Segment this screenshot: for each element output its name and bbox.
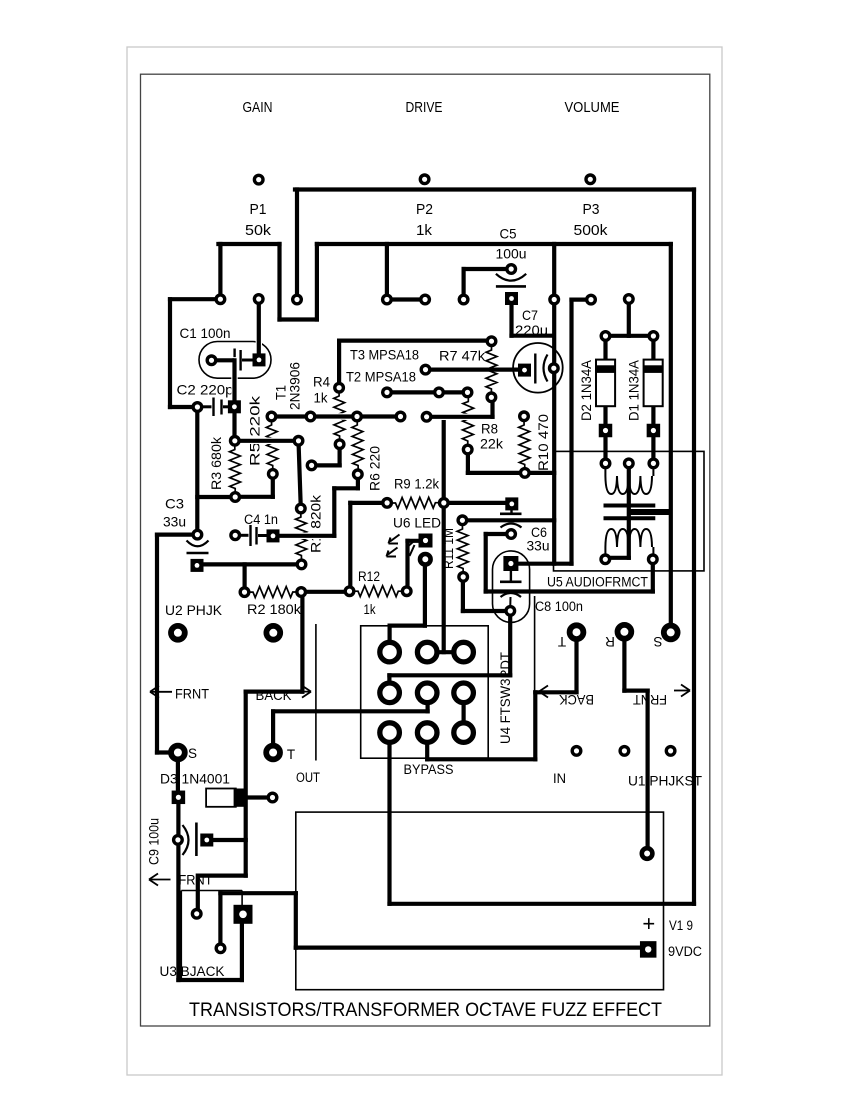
wire U3 tip to battery minus bus — [220, 893, 641, 948]
pad D3 cathode — [268, 793, 277, 802]
capacitor C6 straight plate — [500, 512, 522, 515]
pad footswitch 3-2 — [417, 723, 437, 743]
pad footswitch 1-1 — [380, 642, 400, 662]
svg-text:S: S — [653, 634, 662, 649]
wire D3 cathode lead — [244, 795, 273, 799]
pad C8 positive square — [503, 556, 518, 571]
svg-text:R10 470: R10 470 — [536, 414, 551, 471]
pad transformer feed left — [601, 332, 610, 341]
wire D3 to U3 sleeve — [178, 804, 242, 980]
wire LED cathode pad to footswitch — [390, 559, 425, 652]
pad U3 tip — [216, 944, 225, 953]
svg-text:TRANSISTORS/TRANSFORMER OCTAVE: TRANSISTORS/TRANSFORMER OCTAVE FUZZ EFFE… — [189, 1000, 662, 1021]
resistor R1 zigzag — [296, 513, 307, 560]
pad U1 pin 3 — [666, 747, 675, 756]
svg-text:R1 820k: R1 820k — [309, 495, 324, 553]
pad C2 square — [228, 400, 241, 413]
wire net P2 wiper loop (pads P2, FS3) — [295, 190, 694, 904]
capacitor C8 curved plate — [501, 593, 522, 597]
svg-text:R6 220: R6 220 — [368, 446, 383, 491]
svg-text:R8: R8 — [481, 422, 498, 437]
pad footswitch 2-3 — [454, 683, 474, 703]
svg-text:C2 220p: C2 220p — [177, 382, 234, 398]
pad C9 negative — [174, 836, 183, 845]
pad C1 positive square — [253, 353, 266, 366]
svg-text:T1: T1 — [274, 385, 289, 400]
pad U5 secondary right — [649, 555, 658, 564]
pad C3 negative square — [191, 559, 204, 572]
U1 jack outline line — [534, 596, 536, 692]
pad P3 pin — [586, 175, 595, 184]
svg-text:V1 9: V1 9 — [669, 918, 693, 933]
svg-text:IN: IN — [553, 771, 566, 786]
svg-text:C1 100n: C1 100n — [180, 325, 231, 341]
pad R1 bottom — [297, 560, 306, 569]
svg-text:U6 LED: U6 LED — [393, 516, 441, 531]
pad emitter row 1 — [267, 412, 276, 421]
wire T jack U1 to footswitch row3 — [427, 632, 576, 759]
wire footswitch row2-3 col3 link — [462, 693, 466, 733]
capacitor C6 lead — [510, 509, 512, 513]
pad R7 bottom — [487, 393, 496, 402]
pad D1 cathode square — [647, 424, 661, 438]
pad U2 jack sleeve S — [171, 746, 185, 760]
capacitor C3 straight plate — [187, 552, 209, 555]
pad R3 bottom — [231, 493, 240, 502]
pad P3 right — [625, 295, 634, 304]
pad C7 positive square — [518, 364, 531, 377]
capacitor C7 straight plate — [534, 354, 536, 384]
pad C6 positive square — [505, 497, 518, 510]
resistor R9 zigzag — [392, 497, 440, 508]
pad emitter row 2 — [306, 412, 315, 421]
svg-text:100u: 100u — [496, 246, 527, 262]
pad R10 top — [520, 412, 529, 421]
svg-text:C8 100n: C8 100n — [535, 599, 583, 614]
capacitor C7 curved plate — [544, 355, 548, 382]
wire R11 to C8 bottom — [463, 577, 510, 611]
pad R10 bottom — [521, 469, 530, 478]
LED U6 arrows — [387, 535, 416, 557]
transformer U5 core bars — [604, 506, 656, 519]
svg-text:2N3906: 2N3906 — [288, 362, 303, 410]
wire C5 negative stem to common — [512, 303, 553, 336]
pad C5 positive lead — [459, 295, 468, 304]
svg-text:R12: R12 — [358, 569, 380, 584]
pad footswitch 1-2 — [417, 642, 437, 662]
pad LED U6 anode square — [419, 534, 433, 548]
pad battery positive square — [640, 941, 657, 958]
pad R7 top — [487, 337, 496, 346]
arrow BACK left (rotated, right side) — [539, 686, 556, 698]
pad node 311 — [307, 461, 316, 470]
pad R11 bottom — [459, 573, 468, 582]
U3 jack outline lines — [181, 891, 242, 980]
svg-text:T: T — [287, 747, 295, 762]
svg-text:R7 47k: R7 47k — [439, 349, 485, 364]
pad P2 wiper — [421, 295, 430, 304]
pad C5 negative — [507, 265, 516, 274]
svg-text:1k: 1k — [314, 391, 328, 406]
wire bias vertical R7/R9/footswitch — [427, 417, 463, 652]
pad U2 jack tip T — [266, 746, 280, 760]
svg-text:U3 BJACK: U3 BJACK — [160, 964, 225, 979]
pad R6 bottom — [354, 470, 363, 479]
pad P1 right / P2 feed — [293, 295, 302, 304]
svg-text:C5: C5 — [500, 226, 517, 242]
wire D1 leads — [651, 336, 655, 463]
pad footswitch 2-1 — [380, 683, 400, 703]
capacitor C1 plates — [216, 349, 253, 373]
wire C1/C2/T1 base chain — [235, 299, 301, 509]
svg-text:+: + — [642, 911, 655, 936]
pad C4 square — [267, 529, 280, 542]
capacitor C8 outline (stadium) — [493, 551, 530, 623]
capacitor C8 lead to pad — [509, 597, 511, 605]
pad R4 bottom — [335, 440, 344, 449]
svg-text:500k: 500k — [574, 223, 609, 239]
wire LED square to R12 — [408, 541, 425, 591]
pad P1 wiper — [254, 295, 263, 304]
pad footswitch 1-3 — [454, 642, 474, 662]
pad C3 positive — [193, 530, 202, 539]
wire U3 ring pad link — [195, 912, 200, 916]
svg-text:T2 MPSA18: T2 MPSA18 — [346, 370, 416, 385]
svg-text:VOLUME: VOLUME — [565, 99, 620, 116]
resistor R12 zigzag — [354, 586, 402, 597]
wire base row T2/T3 — [387, 390, 468, 394]
svg-text:FRNT: FRNT — [633, 692, 667, 707]
capacitor C2 plates — [201, 398, 228, 417]
svg-text:S: S — [188, 746, 197, 761]
pad U5 secondary left — [601, 555, 610, 564]
svg-text:R4: R4 — [313, 375, 330, 390]
resistor R8 zigzag — [462, 398, 473, 446]
capacitor C7 outline (circle) — [513, 343, 563, 393]
pad emitter row 3 — [353, 412, 362, 421]
svg-text:D1 1N34A: D1 1N34A — [627, 360, 642, 421]
svg-text:T3 MPSA18: T3 MPSA18 — [350, 348, 419, 363]
svg-text:FRNT: FRNT — [175, 687, 209, 702]
svg-text:OUT: OUT — [296, 770, 320, 785]
svg-text:U5 AUDIOFRMCT: U5 AUDIOFRMCT — [547, 575, 648, 590]
wire R jack U1 to battery — [624, 632, 647, 849]
svg-text:22k: 22k — [480, 437, 503, 452]
pad U1 jack tip T — [570, 625, 584, 639]
capacitor C9 curved plate — [183, 825, 189, 855]
diode D2 body — [596, 360, 615, 407]
wire R5 bottom elbow — [235, 474, 273, 497]
resistor R11 zigzag — [457, 525, 468, 573]
wire OUT net R2 to C9 to U3 — [198, 592, 303, 914]
svg-text:GAIN: GAIN — [243, 99, 273, 116]
pad U3 sleeve square — [234, 905, 253, 924]
pad P3 wiper — [587, 295, 596, 304]
pad U1 pin 1 — [572, 747, 581, 756]
pad P2 pin — [420, 175, 429, 184]
pad emitter row 4 — [396, 412, 405, 421]
pad R2 right — [297, 588, 306, 597]
pad R1 top — [297, 504, 306, 513]
pad footswitch 2-2 — [417, 683, 437, 703]
U5 transformer outline box — [554, 451, 705, 571]
pad transformer feed right — [649, 332, 658, 341]
svg-text:R5 220k: R5 220k — [248, 396, 263, 466]
pad R4 top — [335, 383, 344, 392]
svg-text:T: T — [558, 634, 566, 649]
svg-text:D3 1N4001: D3 1N4001 — [160, 772, 230, 787]
wire bar pads 387-425 row 299 — [387, 297, 425, 301]
svg-text:1k: 1k — [364, 602, 376, 617]
svg-text:C3: C3 — [165, 496, 184, 512]
diode D3 body — [206, 789, 244, 807]
wire T2 out to C7 positive — [426, 368, 518, 372]
svg-text:50k: 50k — [245, 223, 272, 239]
svg-text:33u: 33u — [163, 514, 186, 530]
svg-text:R2 180k: R2 180k — [247, 602, 301, 617]
pad transformer center tap — [625, 459, 634, 468]
scanned page edge (light gray) — [127, 47, 722, 1075]
resistor R10 zigzag — [519, 421, 530, 469]
pad D1 anode — [649, 459, 658, 468]
svg-text:C4 1n: C4 1n — [244, 512, 278, 527]
svg-text:P1: P1 — [250, 202, 267, 218]
svg-text:D2 1N34A: D2 1N34A — [579, 360, 594, 421]
wire pad 311 elbow to R4 bottom — [312, 444, 340, 465]
arrow FRNT left (mid-left) — [150, 686, 172, 698]
pad D2 anode — [601, 459, 610, 468]
pad R8 top — [463, 388, 472, 397]
diode D1 body — [644, 360, 663, 407]
U4 footswitch outline box — [361, 626, 489, 758]
wire emitter bar row 416 — [272, 413, 401, 419]
resistor R4 zigzag — [334, 392, 345, 440]
pad R9 left — [383, 499, 392, 508]
wire T3 collector to R7 — [339, 341, 491, 388]
svg-text:P3: P3 — [583, 202, 600, 218]
capacitor C4 plates — [240, 525, 267, 546]
wire C8 bottom to footswitch row2 — [389, 611, 510, 693]
svg-text:9VDC: 9VDC — [668, 944, 702, 959]
pad common rail top — [550, 295, 559, 304]
pad D3 anode square — [172, 791, 186, 805]
pad C1 negative — [207, 356, 216, 365]
wire input bus left side — [157, 299, 235, 752]
wire R9 left to R12 left — [301, 503, 387, 592]
pad C8 negative — [506, 607, 515, 616]
pad D2 cathode square — [599, 424, 613, 438]
svg-text:C9 100u: C9 100u — [147, 818, 162, 865]
wire branch to T1 collector pad — [385, 244, 389, 300]
wire T jack U2 to footswitch — [273, 693, 428, 753]
svg-text:U1 PHJKST: U1 PHJKST — [628, 774, 702, 789]
wire C5 positive lead elbow — [464, 269, 508, 300]
pad C9 positive square — [200, 834, 213, 847]
pad C6 negative — [507, 530, 516, 539]
pad bar2 left — [422, 413, 431, 422]
capacitor C5 curved plate — [496, 274, 526, 281]
svg-text:1k: 1k — [416, 223, 433, 239]
transformer U5 secondary winding — [605, 529, 653, 556]
capacitor C3 curved plate — [187, 541, 209, 547]
svg-text:U2 PHJK: U2 PHJK — [165, 603, 222, 618]
wire C3 out row 564 — [204, 564, 302, 592]
pad U1 jack sleeve S — [664, 626, 678, 640]
pad T3 base — [435, 388, 444, 397]
capacitor C8 straight plate and lead — [500, 570, 522, 582]
pad U1 jack ring R — [618, 625, 632, 639]
pad P1 left — [216, 295, 225, 304]
pad C7 negative — [550, 364, 559, 373]
pad battery feed — [642, 848, 653, 859]
pad LED cathode — [420, 554, 431, 565]
pad R12 left — [345, 587, 354, 596]
wire net A common rail (P1 pad to S jack) — [218, 244, 670, 632]
wire transformer center tap — [605, 463, 629, 557]
pad R2 left — [240, 588, 249, 597]
svg-text:P2: P2 — [416, 202, 433, 218]
transformer U5 core tap to common rail — [630, 509, 671, 515]
capacitor C1 outline (stadium) — [199, 342, 271, 379]
pad C4 left — [231, 531, 240, 540]
pad C2 right junction — [231, 437, 240, 446]
svg-text:BYPASS: BYPASS — [404, 762, 454, 777]
svg-text:R: R — [605, 634, 615, 649]
pad U3 ring — [192, 910, 201, 919]
resistor R5 zigzag — [266, 421, 278, 470]
svg-text:C7: C7 — [522, 307, 538, 323]
wire R7 bottom / bar2 row 417 — [427, 397, 493, 417]
transformer U5 primary winding — [605, 467, 653, 494]
wire C1 left pad lead — [212, 358, 233, 362]
pad P1 pin — [254, 175, 263, 184]
pad C5 positive square — [505, 292, 518, 305]
wire S jack U2 to D3 — [176, 753, 180, 792]
pad T2 collector out — [421, 365, 430, 374]
wire common vertical C7/R10/C8 rail — [462, 244, 591, 564]
pad footswitch 3-1 — [380, 723, 400, 743]
resistor R6 zigzag — [352, 421, 364, 470]
pad U2 jack pin B — [266, 626, 280, 640]
drawing border frame — [141, 74, 710, 1026]
resistor R3 zigzag — [230, 446, 241, 493]
wire T-bar transformer top feed — [606, 299, 654, 336]
svg-text:DRIVE: DRIVE — [406, 99, 443, 116]
pad C2 left — [193, 403, 202, 412]
arrow FRNT right (rotated, right side) — [674, 685, 690, 697]
pad T2 base — [383, 388, 392, 397]
wire R9 to C6 positive — [444, 501, 506, 505]
resistor R2 zigzag — [249, 587, 297, 598]
resistor R7 zigzag — [486, 346, 497, 393]
svg-text:R9 1.2k: R9 1.2k — [394, 477, 439, 492]
pad R11 top — [458, 516, 467, 525]
capacitor C9 straight plate — [195, 823, 198, 857]
svg-text:33u: 33u — [527, 538, 550, 554]
pad R12 right — [402, 587, 411, 596]
pad footswitch 3-3 — [454, 723, 474, 743]
battery compartment outline box — [296, 812, 664, 990]
pad R9 right — [440, 499, 449, 508]
pad U2 jack pin A — [171, 626, 185, 640]
arrow BACK right (mid) — [294, 686, 311, 698]
capacitor C5 straight plate — [496, 285, 526, 288]
pad U1 pin 2 — [620, 747, 629, 756]
wire R6 jog to C4 — [280, 474, 358, 536]
wire D2 leads — [603, 336, 607, 463]
wire U5 secondary to C6 rail — [486, 534, 653, 592]
svg-text:R3 680k: R3 680k — [209, 437, 224, 490]
pad R5 bottom — [269, 470, 278, 479]
pad T1 emitter junction — [294, 437, 303, 446]
arrow FRNT left (bottom-left) — [149, 874, 171, 886]
U2 jack outline line — [315, 624, 317, 761]
capacitor C6 curved plate — [501, 524, 522, 528]
pad T1 collector — [383, 295, 392, 304]
pad R8 bottom — [463, 445, 472, 454]
